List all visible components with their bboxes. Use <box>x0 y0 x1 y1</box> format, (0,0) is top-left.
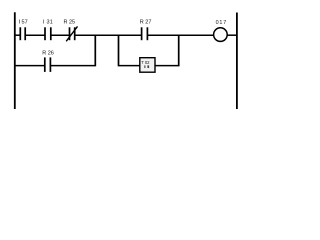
svg-text:R 25: R 25 <box>64 20 76 26</box>
timer T02 box <box>140 58 155 72</box>
wire: vertical from main rung down to timer branch <box>118 35 120 67</box>
svg-text:017: 017 <box>216 20 227 26</box>
right power rail <box>236 13 238 110</box>
contact R26 (normally open, parallel branch) <box>45 57 51 72</box>
svg-text:R 27: R 27 <box>140 20 152 26</box>
svg-text:R 26: R 26 <box>42 51 54 57</box>
wire: rung segment R27 to coil O17 <box>147 34 214 36</box>
wire: rung segment R25 to contact R27 <box>75 34 142 36</box>
wire: branch line from R26 to junction <box>50 65 95 67</box>
wire: timer branch line from T02 box to right vertical <box>155 65 179 67</box>
svg-text:I 31: I 31 <box>43 20 53 26</box>
svg-text:T 02: T 02 <box>141 60 150 65</box>
wire: branch line from left rail to contact R26 <box>14 65 45 67</box>
contact I57 (normally open) <box>20 27 25 40</box>
wire: vertical junction timer branch to main rung <box>178 35 180 67</box>
wire: rung segment I31 to R25 <box>51 34 70 36</box>
wire: rung segment from left rail to contact I57 <box>14 34 20 36</box>
left power rail <box>14 12 16 109</box>
wire: timer branch line to T02 box <box>119 65 140 67</box>
wire: coil to right rail <box>227 34 237 36</box>
wire: rung segment I57 to I31 <box>25 34 45 36</box>
contact R27 (normally open) <box>142 27 148 40</box>
contact R25 (normally closed) <box>66 26 77 41</box>
output coil O17 <box>214 28 228 42</box>
wire: vertical junction R26 branch to main rung <box>94 35 96 67</box>
svg-text:I 57: I 57 <box>19 20 28 26</box>
contact I31 (normally open) <box>45 27 51 40</box>
